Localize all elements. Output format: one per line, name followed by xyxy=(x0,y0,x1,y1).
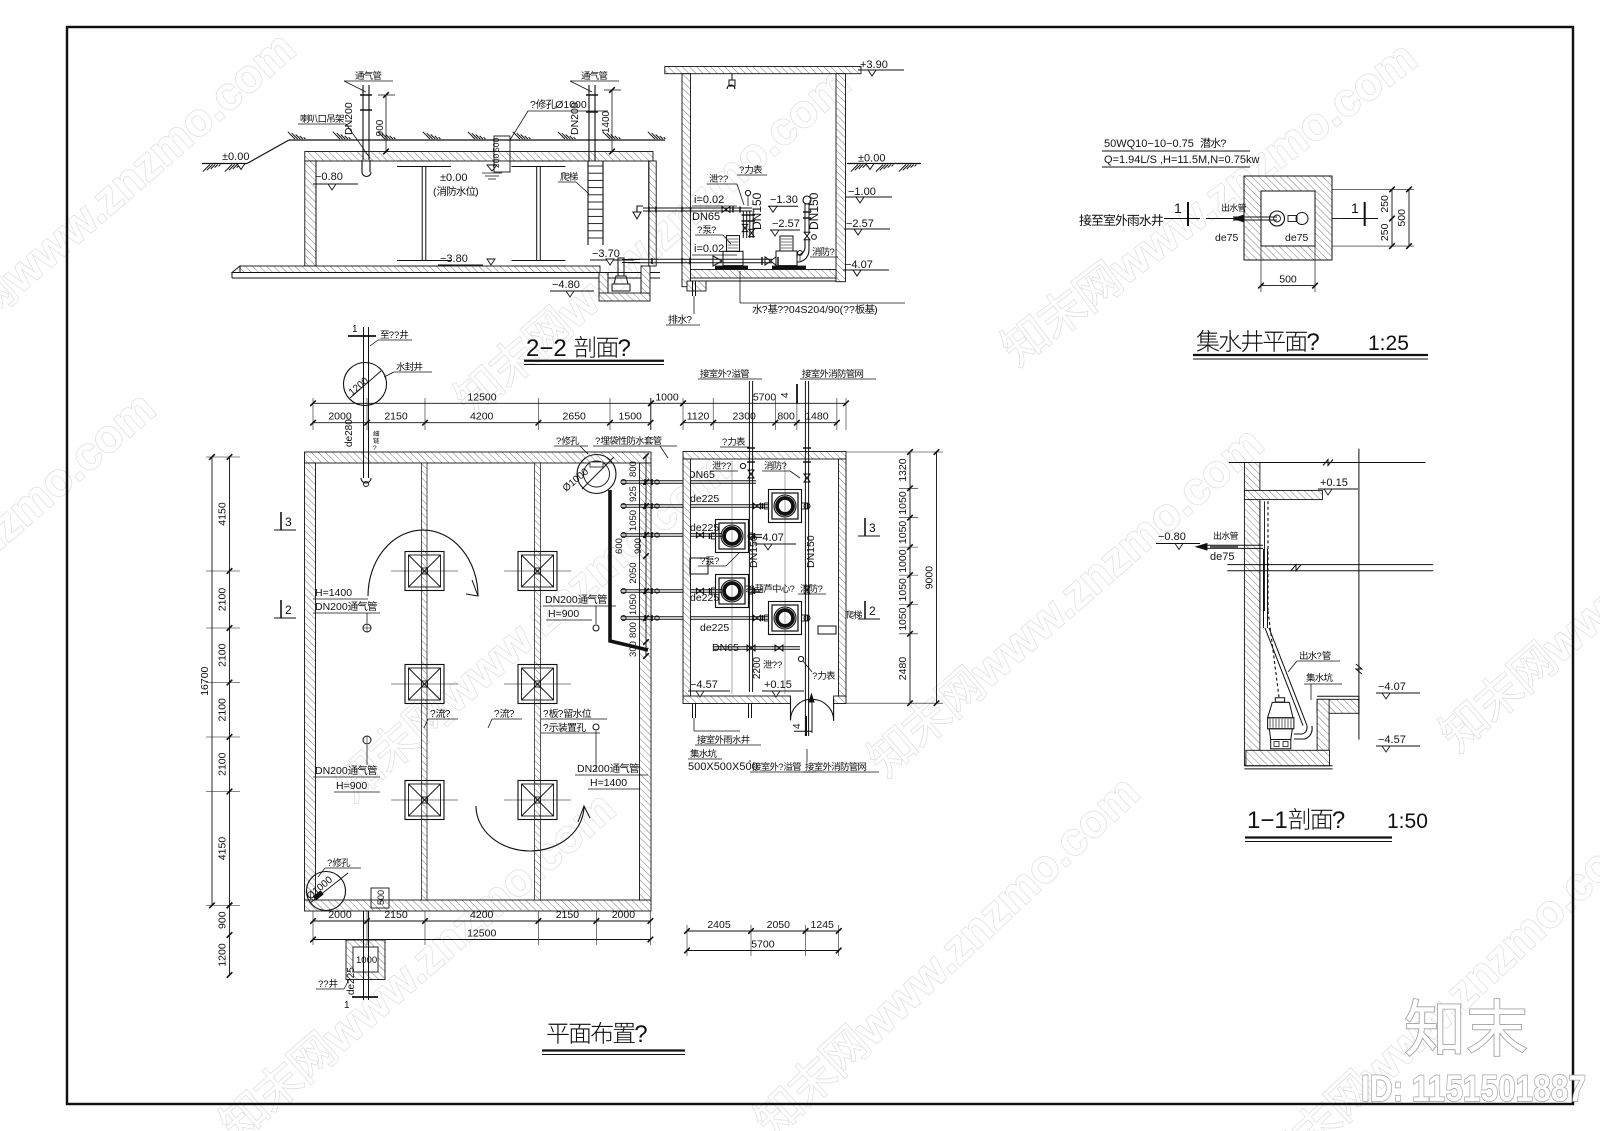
svg-text:2300: 2300 xyxy=(733,411,757,423)
svg-text:?: ? xyxy=(556,436,561,447)
svg-text:?: ? xyxy=(1220,138,1226,150)
svg-text:250: 250 xyxy=(1379,195,1391,213)
svg-text:2100: 2100 xyxy=(217,588,229,612)
svg-text:−4.07: −4.07 xyxy=(1378,681,1406,693)
svg-text:800: 800 xyxy=(628,622,639,638)
svg-text:500X500X500: 500X500X500 xyxy=(688,761,758,773)
svg-text:1000: 1000 xyxy=(655,391,679,403)
svg-text:?: ? xyxy=(327,858,332,869)
svg-text:?: ? xyxy=(543,723,549,734)
svg-text:?: ? xyxy=(818,584,823,595)
svg-text:250: 250 xyxy=(1379,223,1391,241)
svg-text:ID: 1151501887: ID: 1151501887 xyxy=(1361,1068,1586,1109)
svg-text:??: ?? xyxy=(772,660,783,671)
svg-text:−2.57: −2.57 xyxy=(846,218,874,230)
svg-text:2100: 2100 xyxy=(217,643,229,667)
svg-text:2000: 2000 xyxy=(612,909,636,921)
svg-text:Ø1000: Ø1000 xyxy=(555,99,587,111)
svg-text:de225: de225 xyxy=(346,967,357,995)
svg-text:de75: de75 xyxy=(1210,551,1234,563)
svg-text:+0.15: +0.15 xyxy=(764,679,792,691)
svg-text:+0.15: +0.15 xyxy=(1320,477,1348,489)
svg-text:de75: de75 xyxy=(1215,232,1239,244)
svg-text:?: ? xyxy=(714,556,719,567)
svg-text:−3.70: −3.70 xyxy=(592,248,620,260)
svg-text:−2.57: −2.57 xyxy=(772,218,800,230)
svg-text:300: 300 xyxy=(628,641,639,657)
svg-text:4150: 4150 xyxy=(217,502,229,526)
svg-text:?: ? xyxy=(700,556,705,567)
svg-text:?: ? xyxy=(509,709,515,720)
svg-text:−4.80: −4.80 xyxy=(552,279,580,291)
svg-text:2: 2 xyxy=(869,604,876,618)
svg-text:DN150: DN150 xyxy=(805,535,817,568)
svg-text:?: ? xyxy=(1332,807,1345,834)
svg-text:±0.00: ±0.00 xyxy=(222,151,249,163)
svg-text:??: ?? xyxy=(318,979,329,990)
svg-text:?: ? xyxy=(722,437,727,448)
svg-text:?: ? xyxy=(697,225,702,236)
svg-text:925: 925 xyxy=(628,486,639,502)
svg-text:1245: 1245 xyxy=(811,919,835,931)
svg-text:DN200: DN200 xyxy=(315,765,348,777)
svg-text:+3.90: +3.90 xyxy=(860,59,888,71)
svg-text:4: 4 xyxy=(792,723,803,729)
svg-text:−1.00: −1.00 xyxy=(848,186,876,198)
svg-text:?: ? xyxy=(778,762,783,773)
svg-text:DN65: DN65 xyxy=(692,211,720,223)
svg-text:±0.00: ±0.00 xyxy=(440,172,467,184)
svg-text:4200: 4200 xyxy=(470,909,494,921)
svg-text:DN200: DN200 xyxy=(315,601,348,613)
svg-text:900: 900 xyxy=(217,911,229,929)
svg-text:500: 500 xyxy=(1279,274,1297,286)
svg-text:H=1400: H=1400 xyxy=(315,587,352,599)
svg-text:DN150: DN150 xyxy=(807,192,821,230)
svg-text:−3.80: −3.80 xyxy=(440,253,468,265)
svg-text:?: ? xyxy=(595,436,600,447)
svg-text:2050: 2050 xyxy=(767,919,791,931)
svg-text:−4.07: −4.07 xyxy=(756,532,784,544)
svg-text:): ) xyxy=(874,304,878,316)
svg-text:de225: de225 xyxy=(690,493,719,505)
svg-text:5700: 5700 xyxy=(751,939,775,951)
svg-text:?: ? xyxy=(494,709,500,720)
svg-text:−0.80: −0.80 xyxy=(1158,531,1186,543)
svg-text:500: 500 xyxy=(491,138,501,152)
svg-text:H=900: H=900 xyxy=(336,780,367,792)
svg-text:1050: 1050 xyxy=(897,521,909,545)
svg-text:1050: 1050 xyxy=(628,594,639,615)
svg-text:1050: 1050 xyxy=(628,510,639,531)
svg-text:800: 800 xyxy=(777,411,795,423)
svg-text:4: 4 xyxy=(780,392,791,398)
svg-text:4200: 4200 xyxy=(470,411,494,423)
svg-text:??04S204/90(??: ??04S204/90(?? xyxy=(777,304,855,316)
svg-text:2100: 2100 xyxy=(217,698,229,722)
svg-text:?: ? xyxy=(430,709,436,720)
svg-text:1500: 1500 xyxy=(619,411,643,423)
svg-text:−4.57: −4.57 xyxy=(690,679,718,691)
svg-text:−4.07: −4.07 xyxy=(845,259,873,271)
svg-text:500: 500 xyxy=(1396,209,1408,227)
svg-text:600: 600 xyxy=(614,538,625,554)
svg-text:?: ? xyxy=(445,709,451,720)
svg-text:500: 500 xyxy=(376,890,386,905)
svg-text:2150: 2150 xyxy=(384,411,408,423)
svg-text:??: ?? xyxy=(721,461,732,472)
svg-text:2650: 2650 xyxy=(563,411,587,423)
svg-text:16700: 16700 xyxy=(199,666,211,695)
svg-text:DN65: DN65 xyxy=(712,642,739,654)
svg-text:?: ? xyxy=(790,584,795,595)
svg-text:2100: 2100 xyxy=(217,752,229,776)
svg-text:?: ? xyxy=(711,225,716,236)
svg-text:?: ? xyxy=(812,671,817,682)
svg-text:2000: 2000 xyxy=(328,909,352,921)
svg-text:?: ? xyxy=(373,445,377,452)
svg-text:?: ? xyxy=(782,461,787,472)
svg-text:1: 1 xyxy=(1174,200,1182,216)
svg-text:3: 3 xyxy=(285,515,292,529)
svg-text:2050: 2050 xyxy=(628,562,639,583)
svg-text:±0.00: ±0.00 xyxy=(858,153,885,165)
svg-text:3: 3 xyxy=(869,521,876,535)
svg-text:?: ? xyxy=(618,335,631,362)
svg-text:9000: 9000 xyxy=(924,566,936,590)
svg-text:1−1: 1−1 xyxy=(1247,807,1288,834)
svg-text:800: 800 xyxy=(628,461,639,477)
svg-text:1120: 1120 xyxy=(687,411,710,423)
svg-text:1: 1 xyxy=(344,1000,350,1011)
svg-text:de75: de75 xyxy=(1285,232,1309,244)
svg-text:1200: 1200 xyxy=(217,943,229,967)
svg-text:H=900: H=900 xyxy=(548,608,579,620)
svg-text:?: ? xyxy=(726,369,731,380)
svg-text:de225: de225 xyxy=(700,622,729,634)
svg-text:??: ?? xyxy=(389,330,400,341)
svg-text:?: ? xyxy=(686,315,692,326)
svg-text:2480: 2480 xyxy=(897,657,909,681)
svg-text:−1.30: −1.30 xyxy=(770,194,798,206)
svg-text:1320: 1320 xyxy=(897,458,909,482)
svg-text:4150: 4150 xyxy=(217,837,229,861)
svg-text:12500: 12500 xyxy=(467,928,496,940)
svg-text:DN200: DN200 xyxy=(545,594,578,606)
svg-text:??: ?? xyxy=(744,584,755,595)
svg-text:2150: 2150 xyxy=(556,909,580,921)
svg-text:2: 2 xyxy=(285,603,292,617)
svg-text:): ) xyxy=(475,186,479,198)
svg-text:i=0.02: i=0.02 xyxy=(694,243,724,255)
svg-text:1000: 1000 xyxy=(897,549,909,573)
svg-text:?: ? xyxy=(762,304,768,316)
svg-text:5700: 5700 xyxy=(753,391,777,403)
svg-text:1:25: 1:25 xyxy=(1368,332,1409,355)
svg-text:2405: 2405 xyxy=(707,919,731,931)
svg-text:900: 900 xyxy=(375,119,386,136)
svg-text:1480: 1480 xyxy=(805,411,829,423)
svg-text:1000: 1000 xyxy=(356,955,377,966)
svg-text:900: 900 xyxy=(633,538,644,554)
svg-text:1: 1 xyxy=(1351,200,1359,216)
svg-text:?: ? xyxy=(1306,329,1319,356)
svg-text:1050: 1050 xyxy=(897,491,909,515)
svg-text:−0.80: −0.80 xyxy=(315,171,343,183)
svg-text:?: ? xyxy=(830,247,835,258)
svg-text:1050: 1050 xyxy=(897,607,909,631)
svg-text:12500: 12500 xyxy=(467,391,496,403)
svg-text:50WQ10−10−0.75: 50WQ10−10−0.75 xyxy=(1104,138,1194,150)
svg-text:−4.57: −4.57 xyxy=(1378,734,1406,746)
svg-text:i=0.02: i=0.02 xyxy=(694,194,724,206)
svg-text:2000: 2000 xyxy=(328,411,352,423)
svg-text:?: ? xyxy=(543,709,549,720)
svg-text:DN200: DN200 xyxy=(577,763,610,775)
svg-text:(: ( xyxy=(433,186,437,198)
svg-text:?: ? xyxy=(739,165,744,176)
svg-text:DN150: DN150 xyxy=(748,535,760,568)
svg-text:H=1400: H=1400 xyxy=(590,777,627,789)
svg-text:2150: 2150 xyxy=(384,909,408,921)
svg-text:DN200: DN200 xyxy=(343,102,355,135)
svg-text:1:50: 1:50 xyxy=(1387,810,1428,833)
svg-text:?: ? xyxy=(1317,651,1322,662)
svg-text:200: 200 xyxy=(491,154,501,168)
svg-text:2−2: 2−2 xyxy=(526,335,567,362)
svg-text:2200: 2200 xyxy=(752,656,763,679)
svg-text:1400: 1400 xyxy=(601,110,612,133)
svg-text:1050: 1050 xyxy=(897,578,909,602)
svg-text:??: ?? xyxy=(718,174,729,185)
svg-text:?: ? xyxy=(634,1021,647,1048)
svg-text:DN150: DN150 xyxy=(750,192,764,230)
svg-text:Q=1.94L/S ,H=11.5M,N=0.75kw: Q=1.94L/S ,H=11.5M,N=0.75kw xyxy=(1104,154,1259,166)
svg-text:1: 1 xyxy=(352,324,358,335)
svg-text:?: ? xyxy=(558,709,564,720)
svg-text:?: ? xyxy=(530,99,536,111)
